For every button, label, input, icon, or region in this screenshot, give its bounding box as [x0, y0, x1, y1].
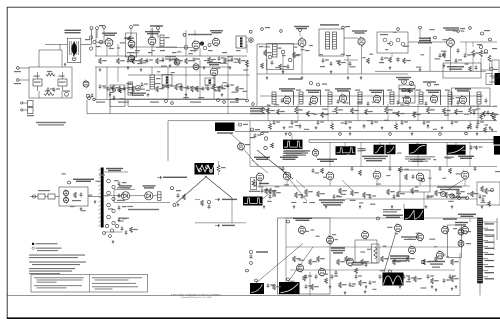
- resistor R102: [44, 90, 54, 95]
- phase det label2: [390, 255, 409, 261]
- coil L2: [160, 35, 170, 46]
- extra circles: [246, 269, 249, 272]
- resistor: [293, 256, 301, 262]
- fuse F1: [63, 91, 70, 97]
- sound trap label: [331, 247, 345, 253]
- discrim lower comps: [320, 58, 346, 73]
- capacitor: [379, 274, 386, 279]
- resistor: [267, 108, 275, 114]
- resistor R2: [117, 58, 125, 64]
- wire: [375, 70, 486, 72]
- resistor: [397, 191, 405, 197]
- gnd: [297, 285, 300, 288]
- resistor R4: [185, 58, 193, 64]
- tube V16: [238, 142, 250, 152]
- tube V13 video IF: [403, 95, 410, 105]
- resistor: [317, 256, 325, 262]
- wire row: [128, 48, 250, 76]
- gnd: [481, 205, 484, 208]
- tube V1 sound IF: [102, 33, 117, 48]
- IF coil labels: [296, 90, 450, 91]
- tuner shield bar: [99, 168, 104, 228]
- wire drop: [267, 104, 269, 121]
- tube V23 sync: [416, 172, 424, 183]
- integrator text: [284, 150, 310, 155]
- tuner input box: [59, 187, 88, 206]
- wire: [257, 44, 302, 74]
- pilot lamp I1: [72, 57, 76, 61]
- sync diag: [252, 150, 465, 201]
- audio box: [278, 218, 378, 294]
- sound row wires: [95, 56, 247, 67]
- resistor: [273, 190, 281, 196]
- wire drop: [297, 104, 299, 121]
- sound IF cluster box: [267, 44, 294, 70]
- tube V27 vert: [362, 230, 369, 240]
- waveform W6: [494, 146, 500, 155]
- focus diag: [230, 133, 241, 143]
- wire: [39, 50, 62, 67]
- sound extra 1: [132, 56, 246, 64]
- capacitor C1: [127, 58, 134, 63]
- resistor: [261, 107, 269, 114]
- tp row: [88, 97, 255, 106]
- terminal B3: [14, 79, 29, 85]
- dark knot: [200, 41, 204, 45]
- cap pair: [470, 145, 483, 150]
- video det diode V17: [119, 185, 132, 200]
- gnd: [399, 285, 402, 288]
- capacitor C3: [221, 84, 228, 89]
- resistor: [407, 256, 415, 262]
- antenna plug: [30, 190, 59, 199]
- resistor: [381, 256, 389, 262]
- selenium rectifier M2: [58, 72, 67, 91]
- right IF box: [452, 88, 496, 133]
- long vertical: [256, 44, 258, 106]
- resistor: [423, 259, 431, 265]
- diag fil: [176, 176, 232, 203]
- capacitor: [273, 120, 280, 125]
- notes table box: [31, 275, 148, 293]
- resistor: [469, 107, 477, 114]
- tube V30 vert: [442, 225, 449, 235]
- tube V2 sound det: [145, 31, 160, 46]
- sync wires: [250, 167, 497, 187]
- filament string: [195, 163, 215, 175]
- right box: [477, 182, 500, 205]
- resistor: [483, 111, 491, 117]
- waveform W4: [405, 144, 435, 162]
- IF coils: [272, 92, 481, 104]
- resistor: [393, 259, 401, 265]
- width coil block: [215, 123, 248, 134]
- below bus comps: [269, 121, 479, 135]
- video box top: [309, 140, 500, 143]
- label volt note: [36, 122, 66, 126]
- gnd: [489, 126, 492, 129]
- wire: [408, 29, 451, 71]
- waveform W7: [383, 209, 424, 220]
- resistor: [413, 112, 421, 118]
- resistor: [335, 107, 343, 114]
- resistor: [471, 191, 479, 197]
- right edge blob: [494, 136, 500, 145]
- coil L3: [150, 75, 161, 89]
- capacitor: [369, 194, 376, 199]
- tube V29 vert: [417, 232, 424, 242]
- tuner caps: [118, 181, 127, 222]
- tp under: [261, 132, 468, 135]
- ratio lower comps: [379, 53, 411, 69]
- loop wires: [114, 187, 170, 202]
- waveform W9: [250, 283, 264, 294]
- sound extra 2: [99, 82, 244, 92]
- capacitor: [345, 120, 352, 125]
- resistor R3: [140, 58, 148, 64]
- tube V10 video IF: [310, 95, 317, 105]
- resistor: [363, 192, 371, 198]
- voltage note: [249, 250, 268, 264]
- volume control R5: [130, 85, 146, 96]
- capacitor: [423, 120, 430, 125]
- wire: [45, 29, 92, 50]
- capacitor C101: [47, 87, 60, 92]
- resistor: [337, 259, 345, 265]
- diag: [263, 192, 272, 199]
- right mid comps: [250, 128, 261, 138]
- tube V8 audio output: [447, 37, 455, 48]
- ratio det box: [377, 32, 408, 53]
- tube V26 vert: [327, 235, 334, 245]
- tube V31 vert: [347, 257, 354, 267]
- small tubes lower: [165, 56, 199, 72]
- tube V3b: [184, 40, 211, 51]
- capacitor: [427, 274, 434, 279]
- wire: [345, 192, 477, 209]
- label SPEAKER: [150, 25, 163, 26]
- horiz output label: [455, 222, 468, 226]
- tube V24 sync: [461, 170, 469, 181]
- tube V8 label: [443, 27, 459, 30]
- waveform W5: [444, 145, 466, 158]
- value labels field: [347, 150, 466, 160]
- tube V22 sync: [373, 170, 381, 181]
- video IF labels: [279, 88, 471, 93]
- tube V below box: [312, 148, 318, 157]
- capacitor: [317, 120, 324, 125]
- resistor cols right: [472, 45, 492, 62]
- waveform W10: [279, 272, 310, 296]
- gnd: [99, 64, 172, 71]
- tone tp: [490, 67, 493, 70]
- audio out lower: [443, 48, 460, 67]
- value labels field: [259, 169, 500, 205]
- wire drop: [447, 104, 449, 121]
- speaker output transformer T3: [236, 36, 246, 48]
- capacitor: [401, 120, 408, 125]
- tube V33 vert: [319, 267, 326, 277]
- gnd: [64, 63, 67, 66]
- gnd: [365, 285, 368, 288]
- gnd: [451, 205, 454, 208]
- test point: [96, 25, 160, 30]
- volume pot: [396, 77, 414, 86]
- capacitor: [403, 274, 410, 279]
- tube V6 4.5mc amp: [298, 31, 306, 48]
- wire drop: [357, 104, 359, 121]
- supply arrow 280V: [215, 224, 235, 227]
- resistor: [295, 192, 303, 198]
- resistor: [365, 109, 373, 115]
- video det diode V18: [143, 185, 156, 200]
- label peak: [288, 78, 327, 86]
- horiz out label: [458, 214, 476, 217]
- gnd: [349, 126, 352, 129]
- supply arrow 400V: [215, 198, 237, 201]
- waveform W2: [336, 146, 366, 155]
- sound if label: [183, 33, 212, 36]
- resistor: [351, 190, 359, 196]
- resistor: [457, 189, 465, 195]
- value labels field: [264, 45, 498, 70]
- discrim transformer T2: [319, 24, 344, 56]
- capacitor: [393, 194, 400, 199]
- sound gnds: [109, 66, 232, 96]
- audio output label: [418, 38, 432, 44]
- tube V3 ratio det: [210, 30, 223, 47]
- resistor: [339, 188, 347, 194]
- tube V9 video IF: [283, 95, 290, 105]
- vert pair: [151, 28, 153, 38]
- section divider: [110, 99, 245, 114]
- gnd: [381, 126, 384, 129]
- vert osc label: [287, 218, 313, 223]
- tube V25 vert: [299, 225, 306, 235]
- border frame bottom: [7, 317, 500, 319]
- bottom labels: [96, 102, 239, 103]
- capacitor C2: [169, 57, 176, 62]
- border frame top: [7, 6, 500, 8]
- 1st video label: [250, 108, 265, 114]
- border frame left: [6, 7, 8, 319]
- tube V19 sync: [256, 172, 264, 183]
- wire: [96, 30, 200, 56]
- tube V12 video IF: [373, 94, 380, 104]
- capacitor: [427, 194, 434, 199]
- tube V36 vert: [462, 225, 469, 235]
- terminal B2: [14, 67, 29, 73]
- table text R: [92, 277, 142, 289]
- gnd: [425, 205, 428, 208]
- AGC box: [399, 85, 415, 103]
- tube V4 audio amp: [124, 38, 135, 64]
- fil resistor: [217, 161, 226, 175]
- wire: [195, 198, 246, 223]
- resistor: [317, 191, 325, 197]
- capacitor: [371, 120, 378, 125]
- gnd: [409, 126, 412, 129]
- gnd: [293, 205, 296, 208]
- wire: [96, 44, 247, 114]
- wire: [167, 121, 169, 161]
- resistor: [427, 107, 435, 114]
- IF row wires: [260, 95, 483, 97]
- resistor: [361, 259, 369, 265]
- bus wire 4: [235, 131, 497, 133]
- tone control box: [443, 63, 489, 78]
- tube V7 audio det: [358, 36, 365, 46]
- gnd: [467, 126, 470, 129]
- value labels field: [62, 173, 133, 221]
- tube V5 audio out: [207, 62, 221, 77]
- wire drop: [387, 104, 389, 121]
- mixer box: [126, 33, 137, 57]
- supply comps: [201, 200, 211, 209]
- bus wire 3: [168, 120, 497, 122]
- wire drop: [327, 104, 329, 121]
- RF AMP label: [106, 168, 123, 171]
- resistor R8: [264, 50, 301, 58]
- resistor: [445, 192, 453, 198]
- gnd: [431, 285, 434, 288]
- yoke wire right: [488, 218, 497, 250]
- horiz osc box: [400, 170, 430, 192]
- value labels field: [103, 82, 247, 100]
- resistor: [385, 107, 393, 114]
- gnd: [315, 126, 318, 129]
- waveform W3: [374, 145, 396, 155]
- tube V14 video IF: [430, 94, 437, 104]
- left of W1: [264, 137, 274, 150]
- left drop: [83, 80, 93, 114]
- waveform W11: [383, 273, 404, 286]
- resistor: [435, 190, 443, 196]
- capacitor: [453, 194, 460, 199]
- capacitor: [477, 120, 484, 125]
- resistor: [451, 259, 459, 265]
- top tp row: [261, 26, 472, 32]
- table text L: [34, 277, 84, 288]
- sound if lower comps: [259, 46, 310, 73]
- triode bits: [268, 50, 292, 62]
- resistor R6: [213, 84, 221, 91]
- power transformer T1: [67, 38, 80, 62]
- bus wire 1: [128, 105, 497, 107]
- phase det label: [319, 199, 345, 205]
- gnd: [391, 205, 394, 208]
- bottom mid comps: [303, 262, 459, 294]
- horiz out tubes: [458, 228, 471, 249]
- wire: [460, 42, 497, 71]
- wire: [344, 38, 362, 74]
- tube V15 video IF: [459, 95, 466, 105]
- label white audio: [157, 176, 187, 179]
- resistor: [305, 189, 313, 195]
- label VIDEO DET: [423, 81, 439, 86]
- right edge top comps: [477, 30, 497, 49]
- boxed resistor: [251, 178, 257, 190]
- gnd: [441, 126, 444, 129]
- interlock plug P1: [21, 101, 34, 117]
- note para2: [29, 262, 86, 266]
- tuner label: [68, 179, 95, 184]
- rectifier box: [29, 67, 72, 98]
- sound takeoff cluster: [85, 36, 103, 50]
- resistor R101: [46, 71, 55, 76]
- wf connections: [292, 135, 456, 146]
- capacitor: [355, 274, 362, 279]
- gnd: [359, 205, 362, 208]
- photofact caption: [171, 293, 222, 299]
- interstage box 2: [205, 78, 215, 85]
- wave caps: [255, 270, 422, 290]
- resistor: [307, 111, 315, 117]
- terminal B1: [90, 27, 93, 30]
- wire: [132, 30, 195, 53]
- value labels field: [263, 97, 497, 133]
- capacitor: [451, 120, 458, 125]
- resistor: [351, 108, 359, 114]
- resistor: [345, 256, 353, 262]
- resistor: [277, 109, 285, 115]
- coil L4: [128, 82, 133, 95]
- note sym1: [32, 243, 58, 245]
- capacitor: [331, 274, 338, 279]
- capacitor: [333, 194, 340, 199]
- power transformer T1 label: [65, 30, 82, 34]
- IF extra: [281, 98, 488, 106]
- resistor: [491, 112, 499, 118]
- resistor: [321, 112, 329, 118]
- capacitor: [479, 194, 486, 199]
- MV label: [253, 182, 276, 194]
- capacitor: [305, 274, 312, 279]
- wire: [250, 121, 480, 296]
- resistor: [435, 256, 443, 262]
- test point: [249, 26, 436, 39]
- tuner right comps: [107, 179, 115, 224]
- resistor: [295, 107, 303, 114]
- horiz section extras: [352, 218, 462, 272]
- note para1: [29, 255, 85, 259]
- sound row2 wire: [257, 55, 408, 74]
- resistor: [485, 188, 493, 194]
- note sym2: [32, 247, 62, 251]
- tube V7 label: [352, 30, 367, 33]
- tube V32 vert: [297, 263, 304, 273]
- diag: [244, 150, 258, 167]
- det out comps: [171, 187, 186, 207]
- gnd: [263, 205, 266, 208]
- IF shield lines: [294, 91, 470, 105]
- tube V11 video IF: [339, 93, 346, 103]
- value labels field: [290, 227, 457, 290]
- speaker SP1: [246, 38, 253, 43]
- sync labels: [254, 156, 474, 162]
- resistor: [443, 108, 451, 114]
- right edge tall box: [492, 60, 499, 78]
- tube V21 sync: [326, 171, 334, 182]
- sound extra labels: [135, 50, 241, 53]
- sync mult label: [377, 215, 404, 220]
- tube V35 vert: [437, 250, 444, 260]
- resistor: [455, 109, 463, 115]
- interstage transformer: [162, 75, 172, 86]
- gnd: [80, 200, 97, 210]
- wire drop: [417, 104, 419, 121]
- capacitor: [269, 194, 276, 199]
